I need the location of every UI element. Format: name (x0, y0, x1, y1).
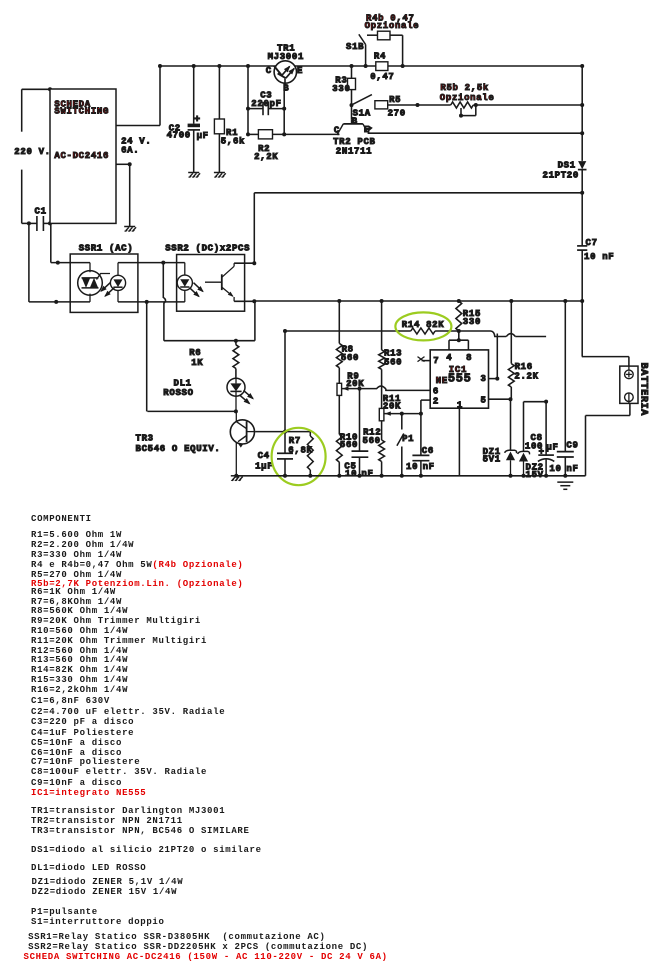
node led-top branch (161, 261, 165, 265)
label 330 of R3 (332, 84, 350, 94)
wire pin 7 stub (n.c.) (418, 357, 431, 362)
label TR3 (136, 434, 154, 444)
svg-text:20K: 20K (346, 379, 364, 389)
svg-text:BC546 O EQUIV.: BC546 O EQUIV. (136, 444, 221, 454)
wire TR3 collector row (147, 302, 236, 412)
label nF of C5 (361, 469, 373, 479)
label pin 7 (433, 356, 439, 366)
label C2 plus (194, 115, 201, 126)
node top bus right corner (580, 64, 584, 68)
node rail R12 (380, 474, 384, 478)
transistor TR2 (2N1711) (339, 120, 373, 133)
svg-text:E: E (297, 66, 303, 76)
label B of TR2 (352, 116, 358, 126)
wire pin 5 stub (489, 398, 511, 400)
label R5 (389, 95, 401, 105)
node R1 top (217, 64, 221, 68)
svg-text:MJ3001: MJ3001 (268, 52, 304, 62)
node S1B bottom (364, 64, 368, 68)
svg-text:7: 7 (433, 356, 439, 366)
wire box gnd out (116, 164, 130, 226)
svg-text:Opzionale: Opzionale (365, 21, 420, 31)
node rail C6 (419, 474, 423, 478)
light arrows DL1 (240, 390, 254, 404)
transistor TR1 (Darlington MJ3001) (274, 61, 296, 83)
node rail C5 (358, 474, 362, 478)
label B of TR1 (283, 84, 289, 94)
diode DS1 (21PT20) (578, 161, 587, 170)
wire DZ2/C8 top link (524, 401, 547, 403)
node C3/R2 branch top (246, 64, 250, 68)
label 220pF (251, 99, 281, 109)
svg-text:6,8K: 6,8K (288, 446, 312, 456)
resistor R2 (258, 130, 272, 139)
light arrows SSR1 (100, 282, 114, 297)
svg-text:B: B (283, 84, 289, 94)
label 2.2K (514, 372, 538, 382)
resistor R12 (379, 421, 385, 476)
resistor R8 (336, 301, 342, 383)
node R15 bottom (457, 329, 461, 333)
svg-text:SWITCHING: SWITCHING (54, 107, 109, 117)
node rail DZ1 (509, 474, 513, 478)
label C5 (344, 461, 356, 471)
label R2 (258, 144, 270, 154)
label DZ2 (526, 462, 544, 472)
resistor R4b (378, 31, 391, 40)
label C8 (531, 433, 543, 443)
wire branch down with hop (163, 263, 165, 341)
label 10 nF of C7 (584, 252, 614, 262)
svg-text:R14 82K: R14 82K (402, 320, 445, 330)
label R1 (226, 128, 238, 138)
label C4 (258, 451, 270, 461)
node R5b left (416, 103, 420, 107)
svg-text:5,6k: 5,6k (221, 136, 245, 146)
box IC1 NE555 (430, 350, 488, 408)
label R11 (383, 394, 401, 404)
label SSR2 (DC)x2PCS (165, 243, 250, 253)
svg-text:5: 5 (481, 396, 487, 406)
label 2N1711 (336, 146, 372, 156)
svg-text:C7: C7 (586, 238, 598, 248)
ground at TR3 emitter (231, 476, 243, 481)
label C3 (260, 91, 272, 101)
wire C3/R2 left branch (247, 66, 249, 134)
resistor R6 (233, 341, 239, 379)
label R4b 0,47 (366, 14, 415, 24)
node charge row (580, 191, 584, 195)
wire pin 1 to rail (458, 408, 460, 476)
label SWITCHING (54, 107, 109, 117)
box SSR2 (177, 255, 245, 312)
svg-text:Opzionale: Opzionale (440, 93, 495, 103)
resistor R16 (508, 301, 514, 399)
node R14-row left end (283, 329, 287, 333)
node pin4-8 tee (457, 338, 461, 342)
battery minus terminal (625, 393, 634, 403)
led DL1 (227, 378, 245, 411)
label 560 of R13 (384, 358, 402, 368)
led in SSR1 (110, 263, 125, 302)
node TR2 row at right vertical (580, 131, 584, 135)
node R4b right at bus (401, 64, 405, 68)
label C1 (35, 206, 47, 216)
svg-text:6A.: 6A. (121, 145, 139, 155)
svg-text:SSR2 (DC)x2PCS: SSR2 (DC)x2PCS (165, 243, 250, 253)
node R5 row at right vertical (580, 103, 584, 107)
svg-text:µF: µF (197, 131, 209, 141)
label 5,6k (221, 136, 245, 146)
node box gnd corner (128, 162, 132, 166)
ground at C2 (188, 173, 200, 178)
node rail R10 (337, 474, 341, 478)
node P1 top (400, 412, 404, 416)
wire R2 row (248, 133, 339, 135)
zener DZ1 (5V1) (505, 450, 517, 476)
node DL1 cathode / TR3 collector (234, 409, 238, 413)
svg-text:1µF: 1µF (255, 461, 273, 471)
svg-text:3: 3 (481, 374, 487, 384)
svg-text:C6: C6 (422, 446, 434, 456)
label 220 V. (14, 147, 50, 157)
label pin 8 (466, 353, 472, 363)
svg-text:5V1: 5V1 (483, 454, 501, 464)
wire SSR leds bottom link (118, 301, 185, 303)
ground at box output (124, 227, 136, 232)
wire battery minus path (586, 403, 630, 475)
label Opzionale (R5b) (440, 93, 495, 103)
node C1 right / box corner (48, 221, 52, 225)
svg-text:0,47: 0,47 (370, 72, 394, 82)
trimmer R11 (379, 408, 421, 420)
green circle around R7 (272, 428, 326, 485)
resistor R10 (336, 434, 342, 475)
label MJ3001 (268, 52, 304, 62)
switch S1A (353, 95, 372, 105)
label R10 (340, 433, 358, 443)
svg-text:C1: C1 (35, 206, 47, 216)
label 21PT20 (543, 171, 579, 181)
wire pin 6 row (hops R13 column) (360, 386, 431, 390)
wire S1B contact to R4b (367, 34, 378, 36)
node pin 3 corner (495, 377, 499, 381)
node SSR2 collector (252, 261, 256, 265)
svg-text:2: 2 (433, 396, 439, 406)
ground at R1 (214, 173, 226, 178)
label E of TR2 (364, 125, 370, 135)
svg-text:S1B: S1B (346, 42, 364, 52)
svg-text:560: 560 (340, 440, 358, 450)
label 1K (191, 358, 203, 368)
label 330 of R15 (463, 317, 481, 327)
label ROSSO (163, 388, 193, 398)
svg-text:10: 10 (549, 464, 561, 474)
ground rail (236, 475, 585, 477)
svg-text:330: 330 (463, 317, 481, 327)
green ellipse around R14 (395, 312, 451, 340)
label plus of C8 (539, 447, 545, 457)
node C3 right / TR1 base (282, 107, 286, 111)
box battery connector (620, 366, 638, 403)
wire R14 row (285, 328, 546, 337)
label R4 (374, 52, 386, 62)
wire into SSR1 triac top (51, 223, 90, 262)
label 1uF (255, 461, 273, 471)
label 10 of C5 (345, 469, 357, 479)
svg-text:10 nF: 10 nF (584, 252, 614, 262)
label pin 4 (446, 353, 452, 363)
label 10 of C9 (549, 464, 561, 474)
label 555 (448, 372, 472, 386)
label R9 (347, 372, 359, 382)
svg-text:560: 560 (384, 358, 402, 368)
svg-text:SSR1 (AC): SSR1 (AC) (79, 243, 134, 253)
node rail TR3 (234, 474, 238, 478)
node led-bottom branch to TR3 (145, 300, 149, 304)
svg-text:10: 10 (345, 469, 357, 479)
node C8 top (544, 400, 548, 404)
svg-text:nF: nF (566, 464, 578, 474)
switch S1B (359, 34, 366, 66)
led in SSR2 (177, 263, 192, 302)
node R15 top (457, 299, 461, 303)
label C of TR1 (266, 66, 272, 76)
svg-text:R6: R6 (189, 348, 201, 358)
label 10 of C6 (406, 462, 418, 472)
capacitor C3 (248, 102, 284, 115)
capacitor C9 (557, 452, 574, 476)
node R5b wiper top (474, 103, 478, 107)
label 6,8K (288, 446, 312, 456)
label pin 1 (457, 400, 463, 410)
label C of TR2 (334, 126, 340, 136)
node S1A pivot (350, 103, 354, 107)
label 560 of R12 (363, 436, 381, 446)
node rail P1 (400, 474, 404, 478)
svg-text:C4: C4 (258, 451, 270, 461)
label C6 (422, 446, 434, 456)
node C3 left (246, 107, 250, 111)
node C9 top (563, 299, 567, 303)
label 5V1 (483, 454, 501, 464)
label 100 of C8 (525, 441, 543, 451)
svg-text:+: + (539, 447, 545, 457)
node on SSR1 top-left wire (56, 261, 60, 265)
label pin 6 (433, 387, 439, 397)
wire TR1 base (283, 83, 285, 134)
label C2 (169, 123, 181, 133)
node rail R7 (308, 474, 312, 478)
wire pin 3 stub (489, 334, 498, 379)
resistor R3 (348, 66, 356, 105)
node C2 top (192, 64, 196, 68)
label R7 (289, 436, 301, 446)
svg-text:+: + (194, 115, 201, 126)
node R2 left (246, 132, 250, 136)
light arrows SSR2 (190, 283, 204, 298)
label BATTERIA (638, 363, 649, 416)
wire SSR2 collector out (234, 262, 254, 264)
triac in SSR1 (78, 263, 110, 302)
node bus left corner (158, 64, 162, 68)
svg-text:555: 555 (448, 372, 472, 386)
capacitor C8 (electrolytic) (538, 402, 554, 476)
wire R6 row (164, 301, 255, 341)
label R6 (189, 348, 201, 358)
wire mid +bus (254, 300, 582, 302)
node rail C9 (563, 474, 567, 478)
capacitor C7 (577, 246, 587, 357)
label 270 (388, 109, 406, 119)
label pin 5 (481, 396, 487, 406)
svg-text:10: 10 (406, 462, 418, 472)
label C9 (566, 441, 578, 451)
svg-text:R5: R5 (389, 95, 401, 105)
label TR1 (277, 44, 295, 54)
node R11 wiper / pin2 column (419, 412, 423, 416)
trimmer R9 (337, 383, 360, 434)
node bus at right vertical (580, 299, 584, 303)
label NE (436, 376, 448, 386)
wire SSR2 emitter out (234, 300, 254, 302)
wire charge row (to SSR2 collector) (254, 192, 582, 194)
svg-text:R5b 2,5k: R5b 2,5k (440, 83, 489, 93)
node R3 top (350, 64, 354, 68)
label R8 (342, 344, 354, 354)
node R16 top (509, 299, 513, 303)
label pin 3 (481, 374, 487, 384)
label 560 of R8 (341, 353, 359, 363)
phototransistor in SSR2 (205, 263, 234, 301)
label 6A. (121, 145, 139, 155)
svg-text:NE: NE (436, 376, 448, 386)
label P1 (402, 434, 414, 444)
wire +24V top bus (160, 65, 582, 67)
label 15V (526, 470, 544, 480)
svg-text:P1: P1 (402, 434, 414, 444)
svg-text:220 V.: 220 V. (14, 147, 50, 157)
resistor R1 (214, 66, 224, 173)
label S1A (353, 109, 371, 119)
svg-text:2.2K: 2.2K (514, 372, 538, 382)
svg-text:ROSSO: ROSSO (163, 388, 193, 398)
label TR2 PCB (333, 137, 376, 147)
wire +24V from box (116, 66, 160, 126)
node R8 top (337, 299, 341, 303)
svg-text:21PT20: 21PT20 (543, 171, 579, 181)
wire DZ1 column (510, 399, 512, 450)
wire C9 column (564, 301, 566, 452)
potentiometer R5b (451, 102, 474, 108)
wire SSR leds top link (118, 262, 185, 264)
label 2,2K (254, 152, 278, 162)
label SCHEDA (54, 99, 90, 109)
node TR1 base bottom (282, 132, 286, 136)
capacitor C5 (352, 389, 369, 476)
wire TR2 collector to R2 row (337, 132, 339, 134)
svg-text:DL1: DL1 (174, 378, 192, 388)
svg-text:6: 6 (433, 387, 439, 397)
svg-text:20K: 20K (383, 402, 401, 412)
label C7 (586, 238, 598, 248)
wire TR2 base (351, 105, 353, 120)
svg-text:270: 270 (388, 109, 406, 119)
label nF of C6 (423, 462, 435, 472)
resistor R5 (375, 101, 388, 109)
box SCHEDA SWITCHING AC-DC2416 (50, 89, 116, 223)
node rail C8 (544, 474, 548, 478)
label pin 2 (433, 396, 439, 406)
label 24 V. (121, 136, 151, 146)
node C1 left (27, 221, 31, 225)
node box top-left (48, 87, 52, 91)
capacitor C2 (electrolytic) (188, 66, 200, 173)
label E of TR1 (297, 66, 303, 76)
label R13 (384, 349, 402, 359)
resistor R15 (456, 301, 462, 331)
svg-text:2,2K: 2,2K (254, 152, 278, 162)
label uF of C8 (546, 443, 558, 453)
label R12 (363, 427, 381, 437)
node pin 5 / R16 bottom (509, 397, 513, 401)
svg-text:4700: 4700 (167, 131, 191, 141)
label R3 (335, 76, 347, 86)
node rail C4 (283, 474, 287, 478)
wire to SCHEDA box top (22, 88, 50, 90)
label R16 (515, 362, 533, 372)
svg-text:1K: 1K (191, 358, 203, 368)
wire 220V return to SSR1 triac bottom (29, 223, 90, 302)
svg-text:nF: nF (423, 462, 435, 472)
label R5b 2,5k (440, 83, 489, 93)
node R9 wiper / C5 top (358, 387, 362, 391)
label 560 of R10 (340, 440, 358, 450)
label 4700 (167, 131, 191, 141)
wire 220V live (left vertical, broken for label) (21, 89, 23, 223)
svg-text:DS1: DS1 (558, 161, 576, 171)
wire battery plus path (582, 357, 629, 367)
svg-text:560: 560 (341, 353, 359, 363)
wire R5b wiper (461, 105, 476, 116)
label uF of C2 (197, 131, 209, 141)
wire pin 2 stub (421, 400, 430, 455)
capacitor C4 (277, 331, 293, 476)
label AC-DC2416 (54, 151, 109, 161)
svg-text:C9: C9 (566, 441, 578, 451)
node R6 top (234, 339, 238, 343)
svg-text:µF: µF (546, 443, 558, 453)
resistor R7 (307, 432, 313, 476)
svg-text:8: 8 (466, 353, 472, 363)
svg-text:15V: 15V (526, 470, 544, 480)
ground at C9 (557, 482, 573, 489)
svg-text:AC-DC2416: AC-DC2416 (54, 151, 109, 161)
capacitor C1 (22, 216, 50, 231)
svg-text:R16: R16 (515, 362, 533, 372)
svg-text:4: 4 (446, 353, 452, 363)
label IC1 (449, 365, 467, 375)
svg-text:nF: nF (361, 469, 373, 479)
zener DZ2 (15V) (518, 451, 530, 475)
label R14 82K (402, 320, 445, 330)
node bus SSR2 emitter (252, 299, 256, 303)
node C4 top (283, 430, 287, 434)
node on SSR1 bottom-left wire (54, 300, 58, 304)
svg-text:330: 330 (332, 84, 350, 94)
svg-text:R4: R4 (374, 52, 386, 62)
resistor R13 (379, 301, 385, 408)
